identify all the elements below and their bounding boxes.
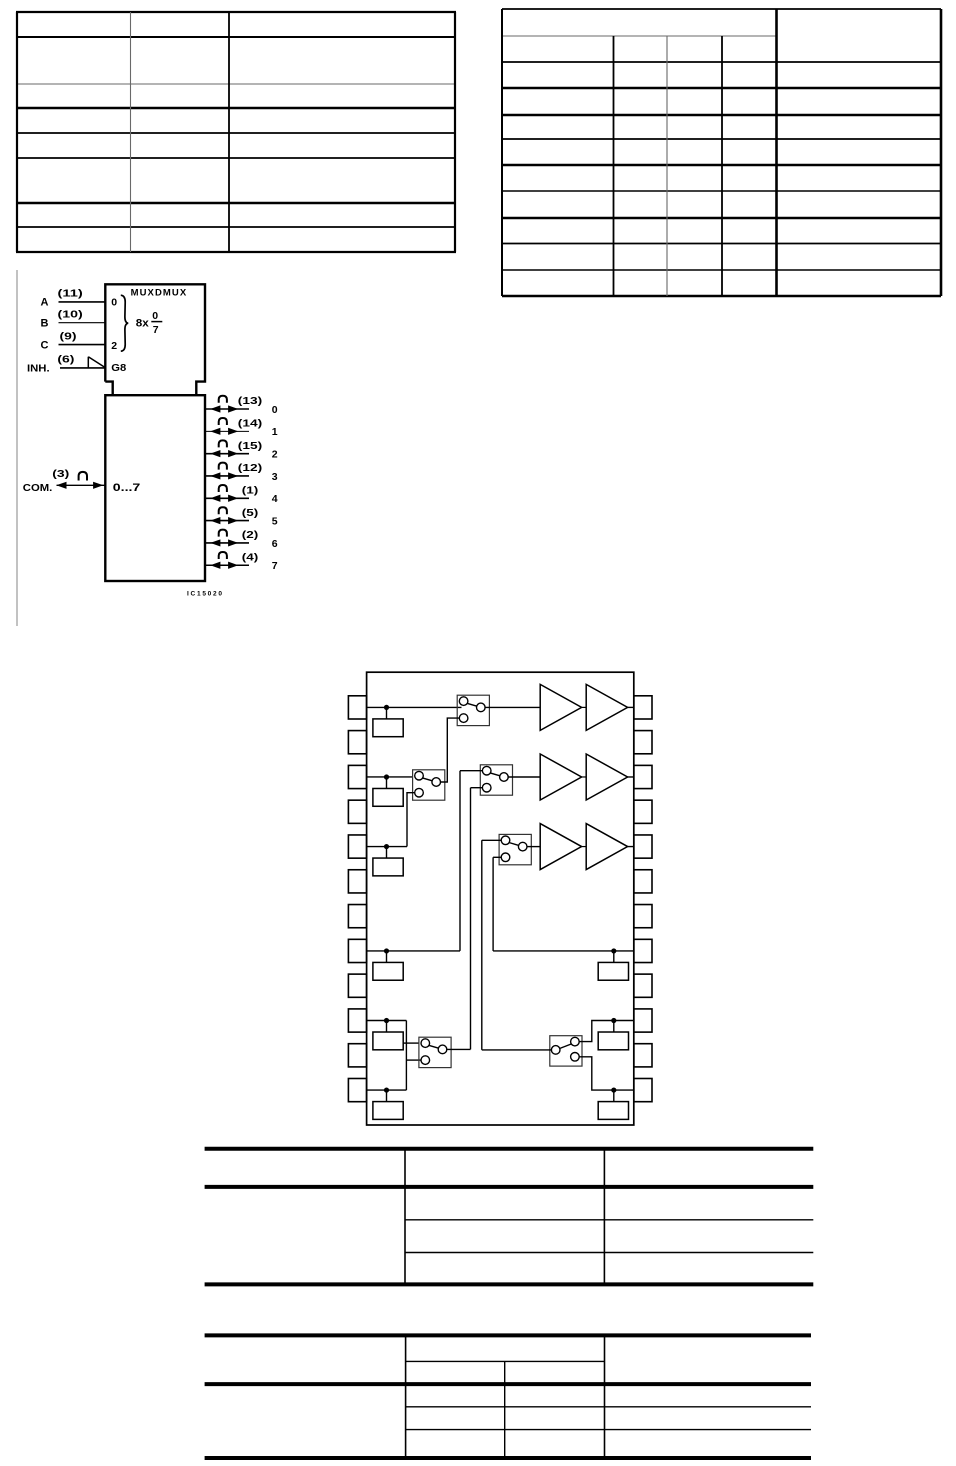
svg-text:7: 7: [153, 324, 159, 336]
wire row5 input: [367, 1020, 407, 1022]
svg-text:MUXDMUX: MUXDMUX: [131, 287, 187, 298]
junction J1: [384, 705, 389, 710]
wire buffer3 out: [628, 846, 634, 848]
pin pad R7: [634, 905, 652, 928]
pin pad L4: [348, 800, 366, 823]
wire S1 output to buffer1: [485, 706, 540, 708]
svg-text:COM.: COM.: [23, 482, 53, 494]
pin pad L2: [348, 731, 366, 754]
wire S4 output to buffer3: [527, 846, 540, 848]
wire net V1 vertical: [459, 771, 461, 951]
capacitor-symbol cap ∩ channel 6: [219, 530, 227, 537]
wire S5 output to V2: [447, 1048, 471, 1050]
wire row2 input: [367, 776, 413, 778]
figure border line: [16, 270, 18, 626]
svg-text:0: 0: [152, 310, 158, 322]
pin pad R2: [634, 731, 652, 754]
wire input C: [59, 344, 106, 346]
wire net V4 vertical: [492, 857, 494, 951]
wire net V2 to S3 lower throw: [471, 787, 483, 789]
wire stub J2: [386, 777, 388, 789]
transistor switch S4: [499, 834, 531, 864]
wire stub J9: [613, 1090, 615, 1102]
svg-text:8x: 8x: [136, 317, 150, 329]
svg-text:INH.: INH.: [27, 363, 50, 374]
svg-text:(5): (5): [242, 508, 259, 519]
wire stub J8: [613, 1021, 615, 1033]
wire stub J1: [386, 707, 388, 719]
wire channel 2 bidirectional arrow: [205, 450, 249, 457]
svg-text:(9): (9): [60, 331, 77, 342]
wire S3 output to buffer2: [509, 776, 541, 778]
transistor-like polarity triangle at INH: [88, 357, 105, 368]
wire net V2 vertical: [470, 788, 472, 1050]
table: top-left ratings table: [16, 12, 456, 252]
brace 0..2 group: [121, 295, 128, 351]
pin pad R10: [634, 1009, 652, 1032]
svg-text:C: C: [41, 339, 49, 351]
resistor R3: [373, 858, 403, 876]
svg-text:4: 4: [272, 493, 278, 505]
wire S6 lower out to row6-right: [579, 1057, 634, 1090]
wire buffer1 out: [628, 706, 634, 708]
svg-text:0: 0: [272, 404, 278, 416]
svg-text:6: 6: [272, 538, 278, 550]
svg-text:(10): (10): [58, 310, 83, 321]
resistor R2: [373, 788, 403, 806]
wire mid-left rail: [367, 950, 460, 952]
wire R5 out to S5: [403, 1042, 419, 1044]
op-amp U2 : switch array block: [105, 395, 205, 581]
pin pad R9: [634, 974, 652, 997]
wire V5 vertical row5-row6: [405, 1021, 407, 1091]
value fraction 0/7: [151, 310, 162, 336]
svg-text:7: 7: [272, 560, 278, 572]
wire net V3 vertical: [481, 840, 483, 1050]
resistor R4: [373, 962, 403, 980]
wire channel 7 bidirectional arrow: [205, 562, 249, 569]
wire mid-right rail: [493, 950, 634, 952]
table: limiting values: [205, 1149, 814, 1285]
resistor R8: [598, 1032, 628, 1050]
wire stub J5: [386, 1021, 388, 1033]
wire V3 to S6 input: [482, 1049, 552, 1051]
transistor switch S5: [419, 1037, 451, 1067]
pin pad L11: [348, 1044, 366, 1067]
op-amp buffer pair B2: [540, 754, 627, 800]
wire stub J7: [613, 951, 615, 963]
wire stub J4: [386, 951, 388, 963]
wire row6 input: [367, 1089, 407, 1091]
junction J2: [384, 774, 389, 779]
wire stub J3: [386, 847, 388, 859]
wire buffer3 link: [582, 846, 587, 848]
wire stub J6: [386, 1090, 388, 1102]
svg-text:(4): (4): [242, 552, 259, 563]
pin pad L7: [348, 905, 366, 928]
pin pad L5: [348, 835, 366, 858]
svg-text:0...7: 0...7: [113, 482, 141, 494]
junction J6: [384, 1087, 389, 1092]
resistor R9: [598, 1102, 628, 1120]
junction J5: [384, 1018, 389, 1023]
svg-text:0: 0: [111, 296, 117, 308]
svg-text:(11): (11): [58, 289, 83, 300]
pin pad L8: [348, 939, 366, 962]
svg-text:1: 1: [272, 426, 278, 438]
pin pad L9: [348, 974, 366, 997]
svg-text:(2): (2): [242, 530, 259, 541]
pin pad R12: [634, 1078, 652, 1101]
op-amp U3 : chip body outline: [367, 672, 634, 1125]
pin pad R1: [634, 696, 652, 719]
svg-text:2: 2: [272, 449, 278, 461]
wire S2 output to S1 lower throw: [441, 718, 460, 782]
svg-text:A: A: [41, 297, 49, 309]
capacitor-symbol cap ∩ channel 5: [219, 507, 227, 514]
junction J7: [611, 948, 616, 953]
pin pad R5: [634, 835, 652, 858]
capacitor-symbol cap ∩ channel 3: [219, 463, 227, 470]
transistor switch S3: [480, 765, 512, 795]
resistor R6: [373, 1102, 403, 1120]
op-amp U1 : MUX/DMUX control block: [105, 284, 205, 395]
resistor R1: [373, 719, 403, 737]
resistor R7: [598, 962, 628, 980]
wire input INH: [60, 367, 105, 369]
wire channel 6 bidirectional arrow: [205, 539, 249, 546]
svg-text:(3): (3): [52, 469, 69, 480]
op-amp buffer pair B1: [540, 684, 627, 730]
wire V5 tap to S5 lower throw: [406, 1059, 421, 1061]
svg-text:G8: G8: [111, 362, 126, 374]
capacitor-symbol cap ∩ channel 1: [219, 418, 227, 425]
resistor R5: [373, 1032, 403, 1050]
svg-text:(15): (15): [238, 441, 262, 452]
junction J9: [611, 1087, 616, 1092]
wire buffer1 link: [582, 706, 587, 708]
wire input B: [59, 322, 106, 324]
svg-text:B: B: [41, 317, 49, 329]
pin pad L10: [348, 1009, 366, 1032]
junction J3: [384, 844, 389, 849]
pin pad R6: [634, 870, 652, 893]
wire channel 3 bidirectional arrow: [205, 472, 249, 479]
transistor switch S1: [457, 695, 489, 725]
pin pad L1: [348, 696, 366, 719]
svg-text:(1): (1): [242, 485, 259, 496]
pin pad R3: [634, 765, 652, 788]
capacitor-symbol cap ∩ channel 7: [219, 552, 227, 559]
svg-text:(6): (6): [57, 354, 74, 365]
pin pad L3: [348, 765, 366, 788]
wire S6 upper out to row5-right: [579, 1021, 634, 1042]
wire channel 0 bidirectional arrow: [205, 405, 249, 412]
wire COM bidirectional arrow: [56, 482, 105, 489]
svg-text:(12): (12): [238, 463, 262, 474]
pin pad R8: [634, 939, 652, 962]
table: top-right function table: [502, 9, 941, 296]
wire net V1 left rail to S3 upper throw: [460, 770, 483, 772]
svg-text:2: 2: [111, 340, 117, 352]
pin pad L12: [348, 1078, 366, 1101]
junction J4: [384, 948, 389, 953]
transistor switch S2: [413, 770, 445, 800]
wire input A: [59, 301, 106, 303]
capacitor-symbol cap ∩ channel 4: [219, 485, 227, 492]
svg-text:3: 3: [272, 471, 278, 483]
capacitor-symbol cap ∩ channel 0: [219, 396, 227, 403]
table: characteristics: [205, 1335, 811, 1458]
capacitor-symbol cap ∩ at COM: [79, 472, 87, 481]
wire net V4 to S4 lower throw: [493, 856, 501, 858]
svg-text:(13): (13): [238, 396, 262, 407]
svg-text:5: 5: [272, 516, 278, 528]
wire buffer2 link: [582, 776, 587, 778]
wire net V3 to S4 upper throw: [482, 839, 502, 841]
wire channel 4 bidirectional arrow: [205, 495, 249, 502]
svg-text:(14): (14): [238, 419, 262, 430]
capacitor-symbol cap ∩ channel 2: [219, 440, 227, 447]
wire channel 1 bidirectional arrow: [205, 428, 249, 435]
pin pad R4: [634, 800, 652, 823]
wire row1 input: [367, 706, 462, 708]
pin pad R11: [634, 1044, 652, 1067]
op-amp buffer pair B3: [540, 824, 627, 870]
junction J8: [611, 1018, 616, 1023]
wire buffer2 out: [628, 776, 634, 778]
transistor switch S6: [550, 1036, 582, 1066]
wire channel 5 bidirectional arrow: [205, 517, 249, 524]
pin pad L6: [348, 870, 366, 893]
wire row3 input: [367, 846, 407, 848]
wire S2 lower throw to row3 net: [407, 793, 415, 847]
